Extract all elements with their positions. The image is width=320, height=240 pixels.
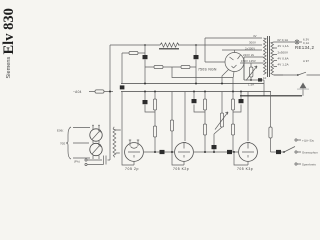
svg-text:705 2p: 705 2p — [125, 167, 139, 171]
wire grid V2 — [184, 92, 186, 142]
wire rectifier cathode — [222, 70, 234, 84]
resistor R6 — [153, 126, 156, 137]
capacitor C4 — [194, 92, 205, 113]
capacitor C1 — [144, 45, 146, 84]
resistor R2 — [154, 65, 163, 68]
bus 1 — [121, 83, 264, 85]
wire drop to bus — [172, 67, 233, 92]
svg-text:300V: 300V — [249, 41, 256, 45]
transformer T1 primary — [264, 38, 267, 75]
mains cord — [274, 72, 320, 75]
resistor R9b — [203, 124, 206, 135]
wire left vertical — [109, 45, 111, 160]
capacitor C7 — [87, 156, 110, 165]
ground lead — [240, 95, 302, 97]
capacitor C8 — [160, 150, 165, 154]
wire under V3 — [234, 152, 248, 165]
svg-text:750S NGN: 750S NGN — [198, 68, 217, 72]
resistor R5 — [154, 92, 156, 153]
svg-text:E06(: E06( — [57, 129, 63, 133]
svg-text:~A04: ~A04 — [73, 90, 82, 94]
wire long vertical — [122, 92, 134, 166]
transformer T1 secondary — [271, 42, 274, 75]
resistor R3 — [181, 65, 190, 68]
svg-text:Sperrkreis: Sperrkreis — [302, 162, 316, 166]
svg-text:Elv 830: Elv 830 — [1, 8, 17, 54]
fuse row — [244, 63, 264, 80]
primary rows — [240, 57, 264, 80]
tube V3 — [239, 143, 258, 162]
wire transformer bottom — [263, 80, 265, 96]
phono terminal — [85, 159, 87, 161]
variometer coil top — [90, 129, 102, 141]
resistor R10b — [231, 124, 234, 135]
resistor R9 — [204, 92, 206, 153]
svg-text:Siemens: Siemens — [6, 57, 12, 79]
capacitor C2 — [195, 45, 197, 55]
svg-text:4V: 4V — [253, 34, 257, 38]
wire grid branch — [122, 53, 145, 84]
potentiometer P1 — [214, 92, 222, 146]
resistor R1 — [129, 51, 138, 54]
svg-text:70E: 70E — [60, 142, 65, 146]
svg-text:(Ph): (Ph) — [74, 160, 80, 164]
svg-text:4V 0,6A: 4V 0,6A — [278, 57, 289, 61]
wire rectifier anode — [222, 50, 262, 53]
svg-text:+(Lfr-S)u: +(Lfr-S)u — [302, 138, 315, 142]
variometer leads — [93, 126, 99, 160]
svg-text:705 K3p: 705 K3p — [237, 167, 253, 171]
bus 2 — [121, 91, 271, 93]
dial lamp — [277, 41, 302, 43]
coil secondary — [113, 129, 116, 156]
capacitor C6 — [233, 92, 241, 113]
capacitor C5 — [212, 145, 217, 149]
svg-text:2x300V: 2x300V — [278, 51, 289, 55]
tube V2 — [175, 143, 194, 162]
tube V1 — [125, 143, 144, 162]
variometer taps — [73, 128, 90, 159]
capacitor C9 — [227, 150, 232, 154]
svg-text:4V 1,1A: 4V 1,1A — [278, 44, 289, 48]
svg-text:1,5A: 1,5A — [248, 83, 254, 87]
svg-text:RE134,2: RE134,2 — [295, 45, 314, 50]
svg-text:2x300V: 2x300V — [245, 46, 255, 50]
wire antenna — [89, 91, 113, 93]
tuner bracket — [66, 127, 71, 159]
wire grid V3 — [247, 92, 249, 142]
switch S1 — [281, 147, 295, 153]
wire under V2 — [172, 152, 184, 165]
capacitor C3 — [145, 92, 155, 113]
svg-text:A 97: A 97 — [303, 59, 309, 63]
ground arrow — [302, 87, 304, 96]
wire screen row — [145, 60, 196, 84]
secondary taps — [274, 42, 284, 75]
resistor R4 — [95, 90, 104, 93]
svg-text:150V 125V: 150V 125V — [241, 59, 256, 63]
resistor R10 — [232, 92, 234, 153]
resistor R11 — [270, 92, 272, 153]
svg-text:4V 1,2A: 4V 1,2A — [278, 63, 289, 67]
adjustable resistor — [250, 67, 253, 77]
resistor R7 — [171, 92, 173, 153]
svg-text:220V 2k: 220V 2k — [243, 53, 255, 57]
svg-text:Gramophon: Gramophon — [302, 150, 318, 154]
rectifier tube V4 — [225, 53, 244, 72]
transformer core — [268, 36, 270, 77]
capacitor C11 — [120, 85, 125, 89]
phono terminal 2 — [85, 163, 87, 165]
wire rectifier top — [205, 38, 262, 62]
variometer coil bottom — [90, 143, 102, 155]
capacitor C10 — [271, 151, 277, 153]
svg-text:10: 10 — [263, 76, 267, 80]
svg-text:4V 0,1A: 4V 0,1A — [277, 38, 288, 42]
choke L1 — [160, 43, 179, 47]
wire B+ top — [110, 44, 262, 46]
junction dots — [144, 83, 146, 85]
svg-text:705 K2p: 705 K2p — [173, 167, 189, 171]
